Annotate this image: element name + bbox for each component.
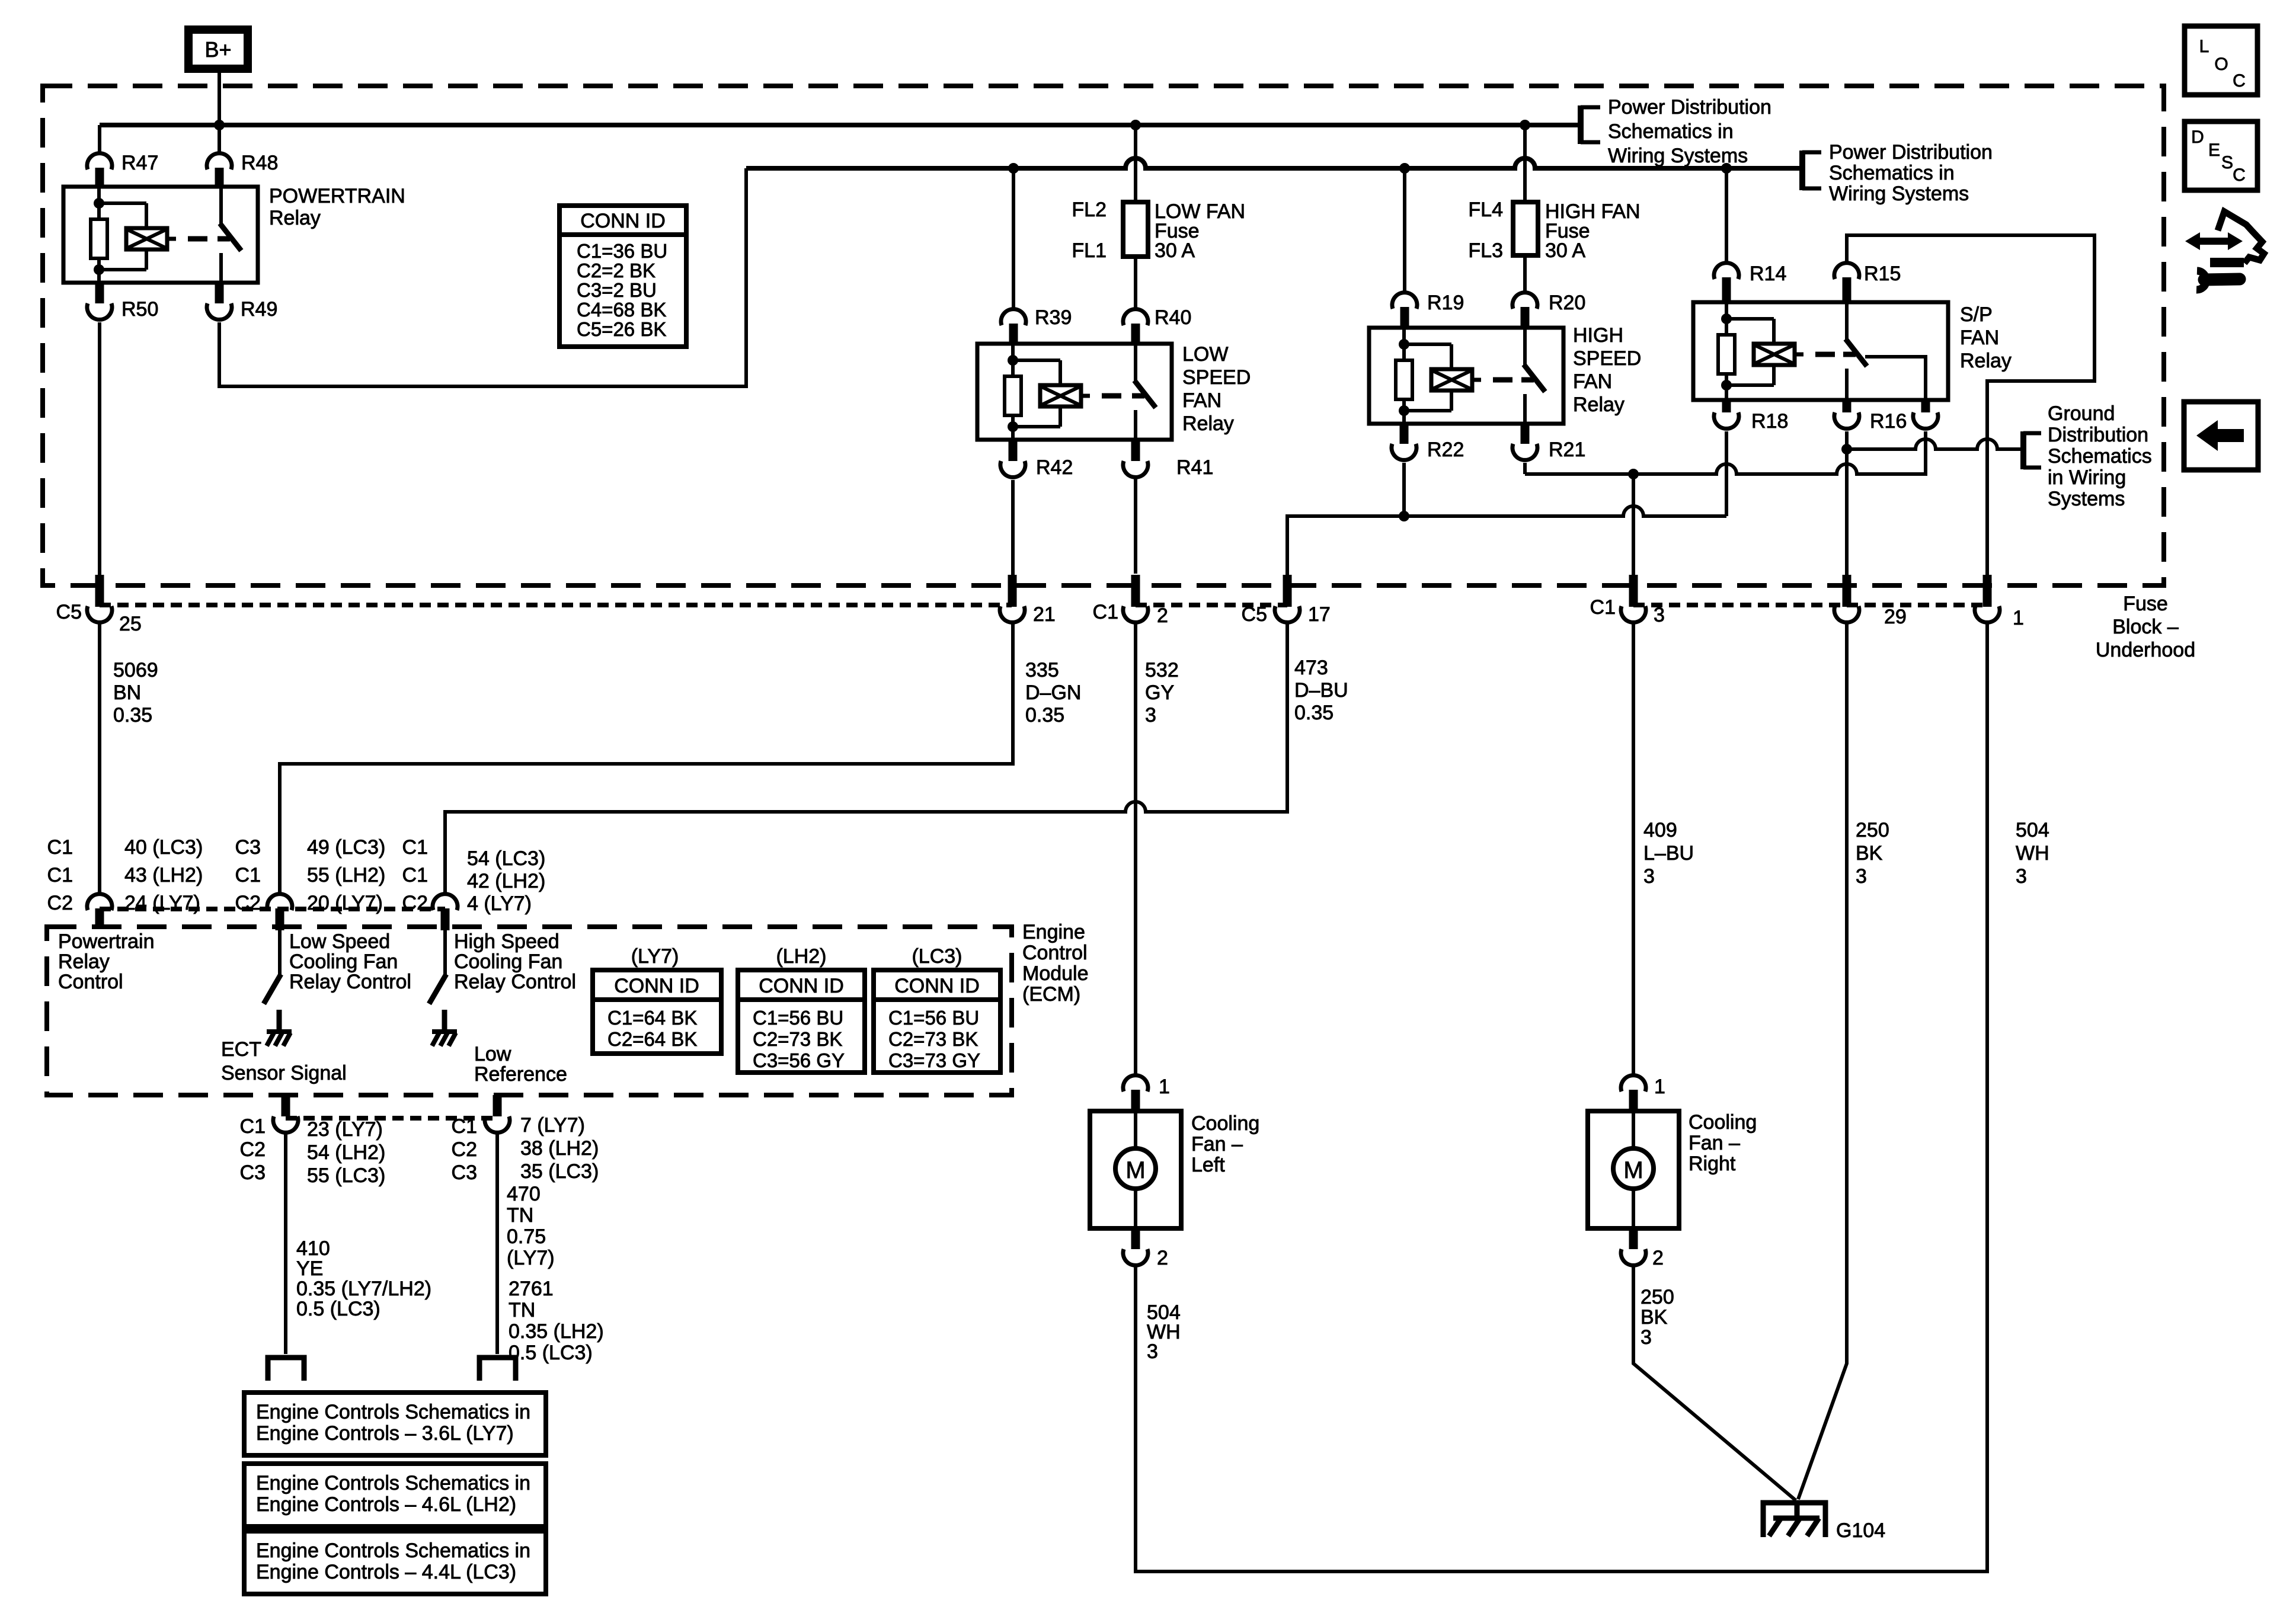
label 335 D-GN 0.35	[1025, 659, 1081, 726]
svg-text:Control: Control	[1022, 942, 1088, 964]
svg-text:3: 3	[1147, 1340, 1158, 1363]
svg-text:Fan –: Fan –	[1689, 1132, 1740, 1154]
label R50	[121, 298, 158, 321]
connector 1	[1975, 575, 2000, 622]
junction dot bus1/FL2	[1130, 120, 1141, 130]
svg-text:20 (LY7): 20 (LY7)	[307, 892, 383, 914]
wire R18 down	[1725, 431, 1728, 516]
svg-text:C1: C1	[240, 1115, 266, 1138]
svg-text:1: 1	[2013, 607, 2024, 629]
connector 21	[1000, 575, 1025, 622]
fuse block underhood dashed boundary box	[43, 86, 2164, 585]
svg-text:Systems: Systems	[2048, 488, 2125, 510]
svg-text:35 (LC3): 35 (LC3)	[520, 1160, 599, 1183]
svg-text:23 (LY7): 23 (LY7)	[307, 1118, 383, 1141]
ground ECM high speed driver	[432, 1010, 457, 1046]
svg-text:R39: R39	[1035, 306, 1072, 329]
label 2	[1157, 604, 1168, 627]
connector R21	[1512, 424, 1537, 460]
label R19	[1427, 292, 1464, 314]
svg-text:L: L	[2199, 37, 2209, 56]
label (LY7)	[631, 945, 679, 968]
motor M left	[1115, 1148, 1156, 1189]
svg-text:FL1: FL1	[1072, 239, 1107, 262]
svg-text:55 (LC3): 55 (LC3)	[307, 1164, 385, 1187]
svg-text:54 (LH2): 54 (LH2)	[307, 1141, 385, 1164]
svg-text:Relay: Relay	[1573, 393, 1625, 416]
label 410 YE 0.35/0.5	[296, 1237, 431, 1320]
label R48	[241, 152, 278, 174]
label Cooling Fan - Right	[1689, 1111, 1757, 1175]
relay LOW SPEED FAN Relay	[977, 344, 1172, 440]
label 49 (LC3) 55 (LH2) 20 (LY7)	[307, 836, 385, 914]
connector S/P relay pin (right)	[1913, 400, 1938, 428]
svg-text:R14: R14	[1750, 263, 1786, 285]
svg-text:R16: R16	[1870, 410, 1907, 433]
svg-text:CONN ID: CONN ID	[614, 975, 699, 997]
svg-text:(LH2): (LH2)	[776, 945, 826, 968]
svg-text:C3: C3	[240, 1161, 266, 1184]
svg-text:Powertrain: Powertrain	[58, 930, 155, 953]
svg-text:0.35 (LY7/LH2): 0.35 (LY7/LH2)	[296, 1278, 431, 1300]
connector ECT sensor signal pin	[273, 1095, 298, 1132]
label 409 L-BU 3	[1643, 819, 1694, 888]
wire R42 down to 21	[1011, 480, 1015, 575]
wire right fan pin 2 to G104	[1633, 1266, 1796, 1500]
svg-text:0.35: 0.35	[113, 704, 152, 726]
svg-text:FL2: FL2	[1072, 199, 1107, 221]
svg-text:1: 1	[1654, 1076, 1665, 1098]
svg-text:(ECM): (ECM)	[1022, 983, 1080, 1006]
connector left fan pin 2	[1123, 1228, 1148, 1265]
svg-text:250: 250	[1641, 1286, 1674, 1308]
label 5069 BN 0.35	[113, 659, 158, 726]
svg-text:24 (LY7): 24 (LY7)	[124, 892, 200, 914]
svg-text:409: 409	[1643, 819, 1677, 841]
CONN ID table (LY7)	[593, 970, 721, 1054]
CONN ID table (LC3)	[874, 970, 1000, 1073]
svg-text:Control: Control	[58, 971, 123, 993]
svg-text:C1: C1	[235, 864, 261, 886]
wire R16 to ground distribution and connector 29	[1845, 431, 1849, 575]
svg-text:C1: C1	[402, 864, 428, 886]
svg-text:Power Distribution: Power Distribution	[1608, 96, 1771, 119]
relay HIGH SPEED FAN Relay	[1369, 328, 1563, 424]
svg-text:GY: GY	[1145, 681, 1174, 704]
svg-text:TN: TN	[507, 1204, 533, 1227]
svg-text:335: 335	[1025, 659, 1059, 681]
svg-text:Cooling: Cooling	[1191, 1112, 1259, 1135]
label POWERTRAIN Relay	[269, 185, 405, 229]
svg-text:2761: 2761	[509, 1278, 554, 1300]
connector R19	[1392, 293, 1417, 328]
svg-text:WH: WH	[2016, 842, 2049, 865]
svg-text:0.75: 0.75	[507, 1225, 546, 1248]
svg-text:25: 25	[119, 613, 142, 635]
svg-text:C1: C1	[47, 864, 73, 886]
fuse FL4/FL3 HIGH FAN	[1513, 202, 1538, 255]
label Engine Control Module (ECM)	[1022, 921, 1089, 1006]
svg-text:Reference: Reference	[474, 1063, 567, 1086]
svg-text:3: 3	[1145, 704, 1156, 726]
svg-text:30 A: 30 A	[1545, 239, 1585, 262]
wire R49 to bus2 loop	[219, 168, 746, 386]
back arrow box	[2184, 402, 2258, 470]
svg-text:Relay Control: Relay Control	[454, 971, 576, 993]
label 25	[119, 613, 142, 635]
wire bus1 to R47	[98, 125, 101, 153]
svg-text:in Wiring: in Wiring	[2048, 466, 2126, 489]
svg-text:R21: R21	[1549, 438, 1585, 461]
connector C1-2	[1123, 575, 1148, 622]
svg-text:2: 2	[1652, 1247, 1664, 1269]
svg-text:3: 3	[1643, 865, 1655, 888]
connector low reference pin	[485, 1095, 510, 1132]
label Cooling Fan - Left	[1191, 1112, 1259, 1176]
box Engine Controls Schematics (LC3)	[244, 1531, 546, 1594]
label R47	[121, 152, 158, 174]
connector R40	[1123, 309, 1148, 344]
connector R14	[1714, 263, 1739, 302]
svg-text:BK: BK	[1641, 1306, 1668, 1329]
wire to ground distribution tag	[1847, 439, 2022, 449]
svg-text:Engine Controls Schematics in: Engine Controls Schematics in	[256, 1472, 530, 1494]
reference tag bracket - Ground Distribution	[2023, 431, 2041, 469]
connector R22	[1392, 424, 1416, 460]
svg-text:43 (LH2): 43 (LH2)	[124, 864, 203, 886]
label FL4	[1468, 199, 1503, 221]
svg-text:C1: C1	[402, 836, 428, 859]
svg-text:Relay: Relay	[1182, 412, 1234, 435]
wire 473 D-BU (C5-17 to ECM)	[445, 623, 1287, 893]
reference tag bracket - Power Distribution (bus2)	[1802, 151, 1821, 190]
svg-text:250: 250	[1856, 819, 1889, 841]
svg-text:C1=56 BU: C1=56 BU	[753, 1007, 843, 1029]
svg-text:C2: C2	[240, 1138, 266, 1161]
connector left fan pin 1	[1123, 1076, 1148, 1111]
svg-text:3: 3	[1654, 604, 1665, 626]
svg-text:C3: C3	[235, 836, 261, 859]
svg-text:Low Speed: Low Speed	[289, 930, 390, 953]
svg-text:Cooling Fan: Cooling Fan	[454, 950, 562, 973]
wire bus1 through FL2 to R40	[1134, 125, 1137, 308]
svg-text:4 (LY7): 4 (LY7)	[467, 892, 532, 915]
CONN ID table (fuse block)	[559, 206, 686, 347]
wire line A (R21 to S/P third pin)	[1525, 431, 1926, 474]
svg-text:470: 470	[507, 1183, 541, 1205]
svg-text:(LY7): (LY7)	[631, 945, 679, 968]
svg-text:C5: C5	[1242, 603, 1267, 626]
wire R21 to line A	[1523, 463, 1527, 474]
label R14	[1750, 263, 1786, 285]
svg-text:R22: R22	[1427, 438, 1464, 461]
connector R49	[207, 283, 232, 319]
svg-text:Fan –: Fan –	[1191, 1133, 1243, 1156]
dotted connector face line (ECM top)	[100, 907, 445, 911]
label R21	[1549, 438, 1585, 461]
svg-text:O: O	[2214, 55, 2228, 74]
bus 1 (battery feed)	[100, 123, 1581, 127]
junction dot bus2/R14	[1721, 163, 1732, 174]
svg-text:C1=36 BU: C1=36 BU	[577, 240, 667, 262]
wire motor left internal	[1134, 1111, 1137, 1228]
svg-text:C2=73 BK: C2=73 BK	[888, 1028, 978, 1050]
svg-text:Engine Controls – 4.4L (LC3): Engine Controls – 4.4L (LC3)	[256, 1561, 516, 1583]
label 21	[1033, 603, 1056, 626]
label 504 WH 3 (left fan)	[1147, 1301, 1181, 1363]
svg-text:C1=64 BK: C1=64 BK	[607, 1007, 697, 1029]
svg-text:D–GN: D–GN	[1025, 681, 1081, 704]
svg-text:0.35 (LH2): 0.35 (LH2)	[509, 1320, 604, 1343]
wire R50 down to C5-25	[98, 322, 101, 575]
label R16	[1870, 410, 1907, 433]
B+ battery terminal box	[188, 30, 248, 69]
junction dot bus2/R19	[1399, 163, 1410, 174]
label 504 WH 3 (right)	[2016, 819, 2049, 888]
svg-text:C2: C2	[235, 892, 261, 914]
svg-text:D: D	[2191, 127, 2204, 147]
svg-text:S/P: S/P	[1960, 303, 1993, 326]
svg-text:E: E	[2208, 140, 2220, 160]
svg-text:ECT: ECT	[221, 1038, 261, 1061]
label C1 C2 C3 (ECT pin)	[240, 1115, 266, 1184]
svg-text:7 (LY7): 7 (LY7)	[520, 1114, 585, 1137]
wire B+ to bus	[218, 69, 221, 127]
svg-text:C2: C2	[47, 892, 73, 914]
svg-text:M: M	[1125, 1157, 1145, 1183]
wire 504 WH (1 to left fan return)	[1136, 623, 1987, 1571]
svg-text:Block –: Block –	[2112, 616, 2179, 638]
svg-text:R47: R47	[121, 152, 158, 174]
dotted connector face line (ECM bottom)	[286, 1116, 497, 1121]
svg-text:B+: B+	[204, 37, 231, 62]
box Engine Controls Schematics (LY7)	[244, 1393, 546, 1455]
label 54 (LC3) 42 (LH2) 4 (LY7)	[467, 847, 545, 915]
label 7 (LY7) 38 (LH2) 35 (LC3)	[520, 1114, 599, 1183]
off-page terminal (ECT wire)	[268, 1358, 304, 1381]
connector R47	[87, 153, 112, 187]
connector ECM pin C1/C1/C2 (powertrain relay control)	[87, 894, 112, 927]
label ECT Sensor Signal	[221, 1038, 347, 1084]
label LOW FAN Fuse 30 A	[1155, 200, 1245, 262]
svg-text:FAN: FAN	[1573, 370, 1612, 393]
svg-text:CONN ID: CONN ID	[759, 975, 844, 997]
connector 29	[1834, 575, 1859, 622]
label R15	[1864, 263, 1901, 285]
label FL1	[1072, 239, 1107, 262]
label R18	[1751, 410, 1788, 433]
junction dot bus2/R39	[1008, 163, 1019, 174]
label 250 BK 3 (right fan)	[1641, 1286, 1674, 1349]
svg-text:C2=2 BK: C2=2 BK	[577, 260, 655, 281]
svg-text:Ground: Ground	[2048, 402, 2115, 425]
svg-text:Left: Left	[1191, 1154, 1225, 1176]
svg-text:Sensor Signal: Sensor Signal	[221, 1062, 347, 1084]
svg-text:40 (LC3): 40 (LC3)	[124, 836, 203, 859]
connector R18	[1714, 400, 1739, 428]
label Power Distribution Schematics in Wiring Systems (top)	[1608, 96, 1771, 167]
svg-text:R50: R50	[121, 298, 158, 321]
svg-text:R42: R42	[1036, 456, 1073, 479]
box Engine Controls Schematics (LH2)	[244, 1464, 546, 1526]
svg-text:C2: C2	[402, 892, 428, 914]
svg-text:Schematics in: Schematics in	[1608, 120, 1734, 143]
svg-text:LOW: LOW	[1182, 343, 1228, 366]
label (LH2)	[776, 945, 826, 968]
svg-text:R19: R19	[1427, 292, 1464, 314]
label Fuse Block - Underhood	[2096, 593, 2195, 661]
svg-text:TN: TN	[509, 1299, 535, 1321]
connector R50	[87, 283, 112, 319]
label (LC3)	[912, 945, 962, 968]
dotted connector face line (left)	[100, 603, 1012, 607]
svg-text:Wiring Systems: Wiring Systems	[1829, 183, 1969, 205]
svg-text:L–BU: L–BU	[1643, 842, 1694, 865]
cooling fan right box	[1588, 1111, 1679, 1228]
ground G104	[1763, 1500, 1825, 1537]
connector R15	[1834, 263, 1859, 302]
svg-text:29: 29	[1884, 606, 1907, 628]
label R22	[1427, 438, 1464, 461]
svg-text:FAN: FAN	[1182, 389, 1221, 412]
wire 335 D-GN (21 to ECM)	[280, 623, 1013, 893]
svg-text:R41: R41	[1176, 456, 1213, 479]
connector right fan pin 2	[1621, 1228, 1646, 1265]
label Low Speed Cooling Fan Relay Control	[289, 930, 411, 993]
label C1 C1 C2 (ECM pin 3)	[402, 836, 428, 914]
label C1 (pin 2)	[1093, 601, 1118, 623]
svg-text:3: 3	[1641, 1326, 1652, 1349]
svg-text:Engine Controls – 3.6L (LY7): Engine Controls – 3.6L (LY7)	[256, 1422, 514, 1445]
svg-text:Distribution: Distribution	[2048, 424, 2148, 446]
svg-text:SPEED: SPEED	[1573, 347, 1641, 370]
svg-text:Low: Low	[474, 1043, 511, 1065]
svg-text:S: S	[2221, 153, 2233, 172]
label 532 GY 3	[1145, 659, 1179, 726]
motor M right	[1613, 1148, 1654, 1189]
svg-text:38 (LH2): 38 (LH2)	[520, 1137, 599, 1160]
svg-text:Engine Controls – 4.6L (LH2): Engine Controls – 4.6L (LH2)	[256, 1493, 516, 1516]
label 40 (LC3) 43 (LH2) 24 (LY7)	[124, 836, 203, 914]
svg-text:C: C	[2233, 165, 2246, 185]
svg-text:CONN ID: CONN ID	[580, 210, 666, 232]
label HIGH SPEED FAN Relay	[1573, 324, 1641, 416]
svg-text:473: 473	[1294, 657, 1328, 679]
wire 5069 BN (C5-25 to ECM)	[98, 623, 101, 893]
label 2761 TN 0.35/0.5	[509, 1278, 604, 1364]
svg-text:HIGH: HIGH	[1573, 324, 1623, 347]
svg-text:C1: C1	[452, 1115, 477, 1138]
svg-text:5069: 5069	[113, 659, 158, 681]
label Powertrain Relay Control	[58, 930, 155, 993]
svg-text:C2: C2	[452, 1138, 477, 1161]
wire 470/2761 TN (low ref to engine controls)	[495, 1134, 499, 1354]
svg-text:FL4: FL4	[1468, 199, 1503, 221]
svg-text:C1: C1	[1093, 601, 1118, 623]
ground ECM low speed driver	[267, 1010, 292, 1046]
svg-text:Power Distribution: Power Distribution	[1829, 141, 1993, 164]
svg-text:Engine Controls Schematics in: Engine Controls Schematics in	[256, 1401, 530, 1423]
svg-text:C1: C1	[1590, 596, 1616, 619]
svg-text:M: M	[1623, 1157, 1643, 1183]
svg-text:C3=2 BU: C3=2 BU	[577, 279, 657, 301]
label 17	[1308, 603, 1331, 626]
svg-text:CONN ID: CONN ID	[894, 975, 980, 997]
label S/P FAN Relay	[1960, 303, 2012, 372]
engine control module dashed box	[47, 927, 1012, 1095]
junction dot R16/ground line	[1841, 444, 1852, 454]
label 2 (left fan)	[1157, 1247, 1168, 1269]
svg-text:30 A: 30 A	[1155, 239, 1195, 262]
svg-text:Relay: Relay	[269, 207, 321, 229]
svg-text:0.35: 0.35	[1294, 702, 1334, 724]
svg-text:Relay: Relay	[1960, 350, 2012, 372]
svg-text:0.35: 0.35	[1025, 704, 1064, 726]
label LOW SPEED FAN Relay	[1182, 343, 1251, 435]
svg-text:C1=56 BU: C1=56 BU	[888, 1007, 979, 1029]
svg-text:BN: BN	[113, 681, 141, 704]
svg-text:504: 504	[2016, 819, 2049, 841]
relay S/P FAN Relay	[1693, 302, 1948, 400]
label C5 (pin 17)	[1242, 603, 1267, 626]
svg-text:C3: C3	[452, 1161, 477, 1184]
svg-text:Engine Controls Schematics in: Engine Controls Schematics in	[256, 1539, 530, 1562]
label 473 D-BU 0.35	[1294, 657, 1348, 724]
connector R42	[1000, 440, 1025, 477]
svg-text:POWERTRAIN: POWERTRAIN	[269, 185, 405, 207]
svg-text:C3=56 GY: C3=56 GY	[753, 1049, 845, 1071]
wire bus1 through FL4 to R20	[1523, 125, 1527, 292]
junction dot R22/R18 line	[1399, 511, 1409, 521]
svg-text:R20: R20	[1549, 292, 1585, 314]
svg-text:Fuse: Fuse	[2123, 593, 2168, 615]
svg-text:C4=68 BK: C4=68 BK	[577, 299, 666, 321]
label C1 C2 C3 (low ref pin)	[452, 1115, 477, 1184]
svg-text:Module: Module	[1022, 962, 1089, 985]
label HIGH FAN Fuse 30 A	[1545, 200, 1641, 262]
wire motor right internal	[1632, 1111, 1635, 1228]
label C1 (pin 3)	[1590, 596, 1616, 619]
switch ECM high speed driver	[429, 930, 446, 1004]
svg-text:SPEED: SPEED	[1182, 366, 1251, 389]
connector right fan pin 1	[1621, 1076, 1646, 1111]
label C3 C1 C2 (ECM pin 2)	[235, 836, 261, 914]
svg-text:49 (LC3): 49 (LC3)	[307, 836, 385, 859]
svg-text:Cooling: Cooling	[1689, 1111, 1757, 1134]
wire 250 BK (29 to G104)	[1798, 623, 1847, 1499]
svg-text:C2=64 BK: C2=64 BK	[607, 1028, 697, 1050]
connector C5-25	[87, 575, 112, 622]
label R40	[1155, 306, 1191, 329]
cooling fan left box	[1090, 1111, 1181, 1228]
svg-text:Schematics: Schematics	[2048, 445, 2152, 468]
junction dot B+/bus1	[214, 120, 225, 130]
svg-text:17: 17	[1308, 603, 1331, 626]
svg-text:Right: Right	[1689, 1153, 1736, 1175]
svg-text:54 (LC3): 54 (LC3)	[467, 847, 545, 870]
svg-text:R15: R15	[1864, 263, 1901, 285]
wire S/P relay third contact	[1865, 357, 1926, 400]
svg-text:FAN: FAN	[1960, 327, 1999, 349]
svg-text:C1: C1	[47, 836, 73, 859]
svg-text:55 (LH2): 55 (LH2)	[307, 864, 385, 886]
svg-text:Relay: Relay	[58, 950, 110, 973]
label Ground Distribution Schematics in Wiring Systems	[2048, 402, 2152, 510]
connector R41	[1123, 440, 1148, 477]
connector C5-17	[1275, 575, 1300, 622]
label R39	[1035, 306, 1072, 329]
svg-text:C3=73 GY: C3=73 GY	[888, 1049, 980, 1071]
